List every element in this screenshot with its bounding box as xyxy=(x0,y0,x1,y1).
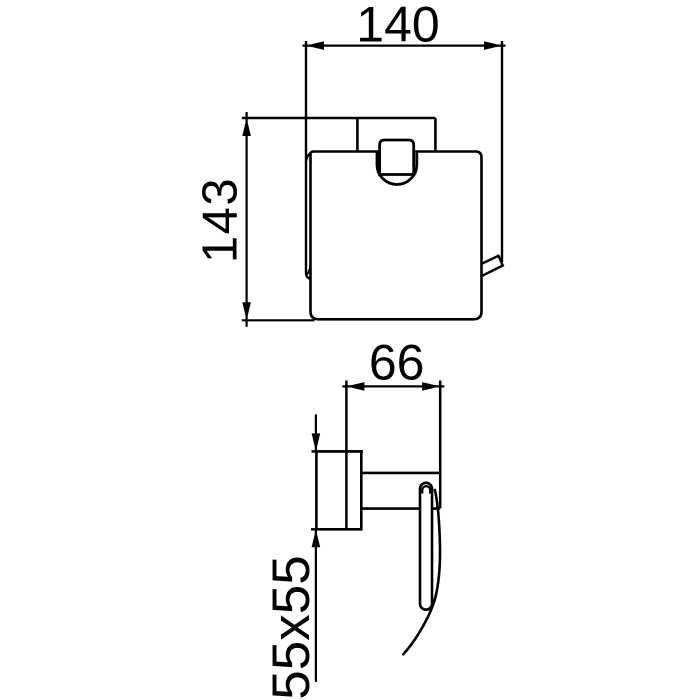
svg-text:55x55: 55x55 xyxy=(262,555,321,699)
capsule inner top arc xyxy=(422,486,430,493)
cover left side face lower rounded end xyxy=(306,264,310,275)
143 dimension line xyxy=(246,112,248,327)
cover left outer edge + 140 left extension line xyxy=(306,41,311,279)
arm top edge xyxy=(361,472,440,475)
hinge outer U xyxy=(377,152,417,185)
svg-text:140: 140 xyxy=(356,0,439,53)
55x55 dimension line lower xyxy=(315,529,317,682)
143 arrow bottom xyxy=(242,302,251,320)
cover (front face) xyxy=(311,152,482,320)
66 arrow left xyxy=(346,382,364,391)
66 dimension line xyxy=(342,385,444,387)
back plate top edge + 143 top extension line xyxy=(242,117,436,120)
wall plate inner line + 66 left extension line xyxy=(345,381,348,530)
cover hinge capsule (side profile) xyxy=(420,483,432,610)
143 arrow top xyxy=(242,118,251,136)
svg-text:143: 143 xyxy=(194,177,248,263)
plate bottom extension overshoot xyxy=(311,528,361,530)
svg-text:66: 66 xyxy=(369,335,425,391)
back plate left edge xyxy=(356,118,359,153)
55x55 arrow lower (points up) xyxy=(312,529,321,547)
plate top extension overshoot xyxy=(312,450,363,452)
hinge tab xyxy=(380,140,414,175)
140 dimension line xyxy=(303,44,506,46)
roller spindle tip (behind cover, right side) xyxy=(476,256,503,277)
arm right edge + 66 right extension line xyxy=(439,381,442,509)
140 arrow right xyxy=(484,41,502,50)
arm bottom edge xyxy=(361,507,440,510)
55x55 arrow upper (points down) xyxy=(312,433,321,451)
140 right extension line xyxy=(501,41,503,262)
55x55 dimension line upper xyxy=(315,414,317,451)
140 arrow left xyxy=(306,41,324,50)
cover front sheet curve (side profile swoosh) xyxy=(403,490,440,654)
66 arrow right xyxy=(422,382,440,391)
cover top-left corner bend to outer edge xyxy=(306,152,311,161)
143 bottom extension line xyxy=(242,319,315,321)
wall plate xyxy=(316,451,361,529)
back plate right edge xyxy=(434,118,437,153)
